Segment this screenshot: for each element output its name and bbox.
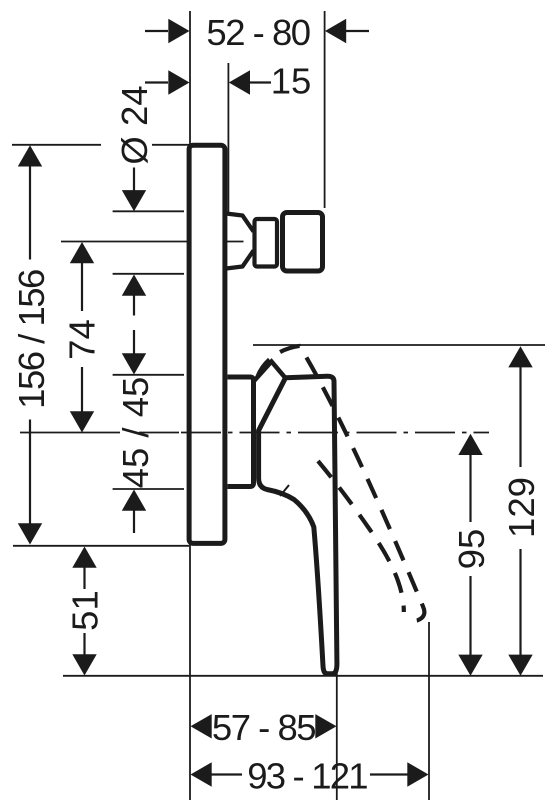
cartridge end cap	[283, 213, 323, 272]
dimension 156/156	[18, 145, 42, 544]
svg-text:156 / 156: 156 / 156	[11, 270, 52, 409]
extension line wall face	[227, 63, 229, 213]
extension line plate top	[12, 144, 190, 146]
dashed lever open position lower edge	[318, 461, 404, 612]
extension line knob cap right face	[324, 11, 326, 208]
extension line dashed lever tip	[428, 622, 430, 800]
svg-text:57 - 85: 57 - 85	[212, 707, 315, 748]
cartridge cone top edge	[226, 214, 254, 232]
tick knob bottom	[113, 273, 184, 275]
dimension 93-121	[191, 762, 429, 786]
svg-text:51: 51	[64, 590, 105, 631]
dimension 45/45 arrows	[122, 330, 146, 533]
baseline floor	[63, 675, 543, 677]
handle axis dash-dot centerline over parts	[181, 432, 489, 434]
tick on blade underside	[280, 485, 289, 496]
extension line dashed lever apex (129 top)	[253, 344, 545, 346]
dimension 52-80	[145, 19, 369, 43]
svg-text:74: 74	[61, 319, 102, 360]
escutcheon plate	[189, 145, 225, 543]
centerline cross tick	[224, 236, 226, 248]
dimension 51	[72, 547, 96, 676]
dimension 57-85	[191, 714, 337, 738]
lever blade (closed position)	[259, 376, 337, 674]
svg-text:93 - 121: 93 - 121	[247, 755, 367, 796]
svg-text:129: 129	[501, 477, 542, 538]
dimension 95	[458, 434, 482, 676]
svg-text:52 - 80: 52 - 80	[206, 12, 309, 53]
extension line left (plate front face)	[189, 11, 191, 800]
extension line plate bottom	[13, 545, 189, 547]
svg-text:Ø 24: Ø 24	[114, 85, 155, 164]
dimension 74	[70, 242, 94, 433]
dimension 129	[508, 346, 532, 676]
dashed lever open position upper outline	[258, 346, 425, 622]
dimension 15	[145, 70, 271, 94]
lever back peak	[254, 362, 285, 382]
extension line lever tip	[336, 660, 338, 800]
extension line handle axis left	[20, 432, 179, 434]
handle hub	[228, 377, 254, 487]
cartridge collar	[255, 219, 278, 267]
tick knob top	[113, 210, 184, 212]
svg-text:45 / 45: 45 / 45	[115, 377, 156, 489]
tick hub top	[113, 374, 184, 376]
knob centerline	[61, 241, 244, 243]
svg-text:15: 15	[271, 60, 312, 101]
svg-text:95: 95	[451, 529, 492, 570]
dimension Ø24 arrows	[122, 168, 146, 316]
cartridge cone bottom edge	[226, 251, 254, 269]
tick hub bottom	[113, 488, 184, 490]
